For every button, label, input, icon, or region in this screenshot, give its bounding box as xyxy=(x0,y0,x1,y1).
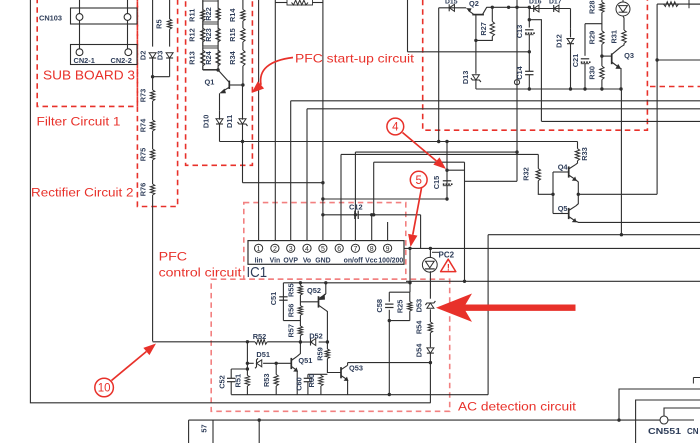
wire C21 column xyxy=(584,24,586,56)
label SUB BOARD 3 xyxy=(43,68,135,83)
svg-text:D15: D15 xyxy=(445,0,458,6)
wire Q5 base xyxy=(553,213,569,215)
wire R30 bottom xyxy=(601,80,603,89)
svg-text:PFC start-up circuit: PFC start-up circuit xyxy=(295,53,415,66)
wire CN551 line right xyxy=(668,419,694,421)
wire big outline left/bottom xyxy=(30,0,430,403)
svg-text:R23: R23 xyxy=(204,28,213,42)
svg-text:2: 2 xyxy=(273,246,277,253)
capacitor C51 xyxy=(269,292,288,306)
capacitor C60 xyxy=(304,378,312,381)
label PFC xyxy=(159,250,188,264)
resistor R23 xyxy=(204,28,221,42)
svg-text:Q2: Q2 xyxy=(469,0,479,8)
junction R30/row xyxy=(600,87,603,90)
wire chains join xyxy=(203,69,218,71)
wire R52 to R57col xyxy=(267,341,300,343)
transistor Q53 xyxy=(341,364,363,382)
transistor Q5 xyxy=(558,204,577,222)
svg-text:Iin: Iin xyxy=(255,257,263,264)
wire Q5 collector up xyxy=(576,194,579,206)
wire y60 right xyxy=(657,59,700,61)
wire R13 bottom xyxy=(202,66,204,70)
svg-text:PFC: PFC xyxy=(159,250,188,264)
svg-text:C51: C51 xyxy=(269,292,278,306)
diode D15 xyxy=(449,4,454,11)
svg-text:D12: D12 xyxy=(555,34,564,48)
wire top resistor left xyxy=(275,2,287,4)
wire top rail y7.8 xyxy=(439,7,467,9)
svg-text:D17: D17 xyxy=(549,0,562,6)
red arrow from circled 10 xyxy=(112,344,157,381)
wire C58R25 top rail xyxy=(389,291,410,293)
svg-text:3: 3 xyxy=(289,246,293,253)
junction rail x508 xyxy=(507,6,510,9)
svg-text:R30: R30 xyxy=(588,66,597,80)
svg-text:OVP: OVP xyxy=(283,257,298,264)
wire bus L5 xyxy=(355,151,517,153)
label D52 xyxy=(309,331,323,340)
svg-text:R32: R32 xyxy=(521,167,530,181)
wire CN103-1 to CN2-1 xyxy=(79,20,81,48)
label D16 D17 fragments xyxy=(529,0,562,6)
label C60 xyxy=(295,377,304,391)
svg-text:PC2: PC2 xyxy=(439,251,455,260)
big red arrow xyxy=(436,294,576,322)
label AC detection circuit xyxy=(458,400,577,414)
junction x438/L4 xyxy=(437,140,440,143)
red dashed box PFC start-up left part xyxy=(186,0,253,165)
junction C13 jog xyxy=(528,18,531,21)
wire chain R14 top xyxy=(242,0,244,10)
svg-text:Q52: Q52 xyxy=(307,286,321,295)
red dashed box SUB BOARD 3 xyxy=(37,0,137,106)
wire Q52 emitter up xyxy=(325,283,327,294)
CN103 pin1 circle xyxy=(76,14,83,21)
wire CN551 upper xyxy=(619,389,700,420)
wire bus L2 xyxy=(307,108,700,110)
capacitor C52 xyxy=(227,378,235,381)
svg-text:Q3: Q3 xyxy=(624,51,634,60)
resistor R22 xyxy=(204,7,221,21)
wire IC pin9 up xyxy=(387,222,389,241)
wire x410 down xyxy=(409,248,411,292)
svg-text:100/200: 100/200 xyxy=(378,257,403,264)
wire R32 bottom to rail xyxy=(538,181,553,195)
svg-text:CN2-1: CN2-1 xyxy=(74,56,95,65)
diode D3 xyxy=(156,51,174,60)
wire chain R22 top xyxy=(217,0,219,8)
wire C60R60 rail xyxy=(308,373,328,375)
junction C13 top rail xyxy=(528,6,531,9)
label D15 fragment xyxy=(445,0,458,6)
svg-text:D2: D2 xyxy=(139,51,148,60)
svg-text:R31: R31 xyxy=(610,30,619,44)
svg-text:7: 7 xyxy=(353,246,357,253)
svg-text:R55: R55 xyxy=(286,283,295,297)
wire x621 down xyxy=(620,89,622,235)
junction C58 bottom rail xyxy=(388,319,391,322)
svg-text:control circuit: control circuit xyxy=(159,266,243,280)
wire y234 rail xyxy=(488,234,700,236)
svg-text:R56: R56 xyxy=(286,304,295,318)
resistor R73 xyxy=(139,89,155,103)
wire interior bottom xyxy=(231,394,488,396)
wire R33 top xyxy=(577,142,579,149)
wire R60 col xyxy=(320,374,322,375)
svg-text:4: 4 xyxy=(392,122,399,134)
wire D52 left xyxy=(300,341,312,343)
svg-text:R24: R24 xyxy=(204,50,213,64)
wire top rail y7.8 part2 xyxy=(487,6,530,8)
junction chains xyxy=(216,68,219,71)
wire C12 rail xyxy=(323,214,421,216)
wire IC pin3 up xyxy=(290,101,292,241)
svg-text:4: 4 xyxy=(305,246,309,253)
wire y194 to x657 xyxy=(578,193,657,195)
svg-text:C52: C52 xyxy=(217,375,226,389)
wire corner to AC box xyxy=(153,341,248,343)
wire bus L6 xyxy=(341,153,538,155)
wire junction to R73 xyxy=(152,77,154,90)
wire C15 to x464 xyxy=(447,169,465,171)
wire CN103 pin2 up xyxy=(127,0,129,14)
resistor R32 xyxy=(521,167,540,181)
connector fragment right edge xyxy=(693,378,700,384)
svg-text:10: 10 xyxy=(98,383,111,395)
svg-text:Vcc: Vcc xyxy=(365,257,377,264)
wire R29 to base node xyxy=(601,44,603,66)
svg-text:C12: C12 xyxy=(349,203,363,212)
svg-text:R33: R33 xyxy=(580,147,589,161)
wire C52 rail xyxy=(231,368,247,370)
wire R25 top xyxy=(409,292,411,302)
wire D11 top xyxy=(242,85,244,120)
svg-text:R22: R22 xyxy=(204,7,213,21)
wire R22-R23 xyxy=(217,20,219,28)
wire D54 to dot xyxy=(429,353,431,363)
wire LED to R31 xyxy=(623,16,624,30)
junction C12/pin8 xyxy=(370,213,373,216)
svg-text:Q1: Q1 xyxy=(205,78,215,87)
diode D51 xyxy=(255,358,262,368)
svg-text:R59: R59 xyxy=(316,347,325,361)
wire R53 bottom xyxy=(275,386,277,395)
resistor R14 xyxy=(228,8,245,22)
label CN2-2 xyxy=(111,56,132,65)
LED lamp top right xyxy=(616,0,630,16)
svg-text:C13: C13 xyxy=(515,25,524,39)
transistor Q1 xyxy=(205,70,243,93)
resistor R52 xyxy=(253,332,268,344)
junction pin5/182 xyxy=(321,181,324,184)
red dashed box AC detection circuit xyxy=(211,279,450,411)
svg-text:D54: D54 xyxy=(415,343,424,357)
wire R73-R74 xyxy=(152,101,154,120)
junction x657/y60 xyxy=(655,58,658,61)
wire D11 to pin5 xyxy=(243,182,323,184)
wire bottom outline xyxy=(189,419,660,421)
wire bottom left leg xyxy=(188,420,190,443)
svg-text:CN: CN xyxy=(687,427,699,436)
svg-text:C58: C58 xyxy=(375,299,384,313)
wire PC2 to D53 xyxy=(429,271,431,299)
svg-text:SUB BOARD 3: SUB BOARD 3 xyxy=(43,68,135,83)
svg-text:R75: R75 xyxy=(139,148,148,162)
junction Q3 base node xyxy=(600,54,603,57)
capacitor C12 xyxy=(349,203,363,220)
junction y248/410 xyxy=(408,247,411,250)
svg-text:R15: R15 xyxy=(228,28,237,42)
wire CN551 pin wire xyxy=(664,408,700,416)
wire top resistor right xyxy=(313,2,323,4)
wire y279 rail xyxy=(406,280,700,282)
label CN2-1 xyxy=(74,56,95,65)
junction rail/x410 xyxy=(408,281,411,284)
wire R29 top xyxy=(601,24,603,31)
wire IC pin8 up xyxy=(371,215,373,241)
svg-text:C60: C60 xyxy=(295,377,304,391)
diode D53 xyxy=(415,299,436,313)
svg-text:C15: C15 xyxy=(432,176,441,190)
red dashed box PFC control circuit xyxy=(244,203,406,280)
svg-text:1: 1 xyxy=(257,246,261,253)
junction D51/R53 xyxy=(275,362,278,365)
wire C51 col xyxy=(282,283,284,321)
wire x517 vertical xyxy=(516,0,518,181)
diode D13 xyxy=(461,71,481,85)
wire D13 tail xyxy=(475,67,477,74)
wire Q53 collector up xyxy=(347,363,349,366)
svg-text:AC detection circuit: AC detection circuit xyxy=(458,400,577,414)
svg-text:R74: R74 xyxy=(139,118,148,132)
junction R27 rail xyxy=(491,6,494,9)
wire IC pin6 up xyxy=(340,154,342,240)
resistor R5 xyxy=(155,19,172,29)
resistor R15 xyxy=(228,28,245,42)
wire x464 down xyxy=(464,162,466,281)
wire R28 to jog xyxy=(585,13,602,24)
wire D3 down xyxy=(169,58,171,77)
resistor R13 xyxy=(188,50,206,66)
box around R24 xyxy=(203,48,218,70)
wire pin5 to C15 node xyxy=(323,198,447,200)
svg-text:C14: C14 xyxy=(515,65,524,79)
junction R55 top xyxy=(299,281,302,284)
label 57 xyxy=(200,424,209,432)
svg-text:D16: D16 xyxy=(529,0,542,6)
wire bottom leg2 xyxy=(212,420,214,443)
wire C14 top xyxy=(528,52,530,72)
svg-text:Rectifier Circuit 2: Rectifier Circuit 2 xyxy=(31,186,134,200)
junction C13/W xyxy=(528,50,531,53)
svg-text:D53: D53 xyxy=(415,299,424,313)
svg-text:!: ! xyxy=(447,263,450,273)
wire C58 col top xyxy=(388,292,390,302)
resistor R33 xyxy=(575,147,589,161)
wire Q51 collector up xyxy=(297,342,300,356)
label CN103 xyxy=(39,14,62,23)
svg-text:R29: R29 xyxy=(588,31,597,45)
wire R51 bottom xyxy=(246,386,248,395)
junction pin5/199 xyxy=(321,197,324,200)
resistor R25 xyxy=(395,300,412,314)
svg-text:R60: R60 xyxy=(307,374,316,388)
wire C13 column top xyxy=(528,7,530,27)
wire C58 col bottom xyxy=(388,310,390,395)
wire y181 to x517 xyxy=(465,180,518,182)
wire x259 stub xyxy=(258,420,260,443)
resistor R12 xyxy=(188,28,206,42)
connector CN103 box xyxy=(71,8,138,24)
wire R59 to Q53 base xyxy=(327,359,341,373)
wire row y89 xyxy=(476,88,622,90)
red arrow from circled 5 xyxy=(408,188,421,247)
diode fragment top right corner xyxy=(689,0,700,8)
svg-text:C21: C21 xyxy=(571,54,580,68)
svg-text:D3: D3 xyxy=(156,51,165,60)
junction y248/PC2 xyxy=(429,247,432,250)
transistor Q2 xyxy=(466,0,487,40)
diode D17 xyxy=(554,5,559,12)
wire R32 top xyxy=(537,154,539,168)
wire R24 bottom xyxy=(217,66,219,70)
svg-text:5: 5 xyxy=(415,175,421,187)
svg-text:Q53: Q53 xyxy=(349,364,363,373)
junction D52/x327 xyxy=(326,340,329,343)
junction Q1 base xyxy=(241,83,244,86)
junction base rail xyxy=(551,193,554,196)
label IC1 xyxy=(247,265,268,281)
optocoupler PC2 LED xyxy=(422,252,439,272)
wire base rail xyxy=(552,172,554,214)
wire IC pin4 up xyxy=(306,109,308,241)
CN551 pin circle xyxy=(660,416,668,424)
resistor R29 xyxy=(588,31,605,45)
wire Q51 emitter down xyxy=(296,371,298,395)
CN2-1 pin circle xyxy=(76,49,83,56)
junction D54 bottom xyxy=(429,361,432,364)
svg-text:Filter Circuit 1: Filter Circuit 1 xyxy=(37,114,121,128)
svg-text:R52: R52 xyxy=(253,332,267,341)
svg-text:5: 5 xyxy=(321,246,325,253)
wire bus L3 xyxy=(542,120,700,122)
junction pin7/C12 rail xyxy=(354,213,357,216)
red dashed box rectifier/filter column xyxy=(137,0,177,207)
wire D2 column top xyxy=(152,0,154,47)
svg-text:R11: R11 xyxy=(188,9,197,22)
resistor R27 xyxy=(479,21,495,36)
wire x373 down xyxy=(373,162,375,215)
wire x488 vertical xyxy=(487,235,489,395)
resistor R60 xyxy=(307,374,323,388)
resistor R59 xyxy=(325,349,329,359)
svg-text:D13: D13 xyxy=(461,71,470,85)
wire rail D16 segment xyxy=(529,8,570,10)
wire R14-R15 xyxy=(242,21,244,28)
red circled 5 xyxy=(410,171,427,188)
wire Q4 base xyxy=(553,171,569,173)
wire CN103-2 to CN2-2 xyxy=(127,20,129,48)
transistor Q4 xyxy=(558,163,577,181)
svg-text:R57: R57 xyxy=(286,324,295,338)
svg-text:CN551: CN551 xyxy=(648,427,682,436)
wire C51 bottom rail xyxy=(283,320,300,322)
red dashed corner top-right box xyxy=(650,86,700,88)
junction x373/C12 rail xyxy=(372,213,375,216)
wire R11-R12 xyxy=(202,21,204,28)
wire IC pin7 up xyxy=(354,152,356,241)
wire D3 join D2 xyxy=(153,76,170,78)
junction D12/row xyxy=(569,87,572,90)
diode D54 xyxy=(415,343,434,357)
wire C52 bottom xyxy=(230,382,232,395)
red circled 10 xyxy=(95,378,114,397)
wire Q4 emitter down xyxy=(576,180,579,195)
junction CN551 xyxy=(617,418,620,421)
wire D12 column xyxy=(570,9,572,29)
wire R55-R56 xyxy=(299,295,301,306)
wire Q2 collector down xyxy=(475,40,477,66)
resistor R54 xyxy=(415,320,433,334)
resistor R34 xyxy=(228,50,245,66)
wire C12 rail corner down xyxy=(420,215,422,249)
junction C52 rail xyxy=(246,367,249,370)
svg-text:CN103: CN103 xyxy=(39,14,62,23)
resistor R57 xyxy=(286,324,302,338)
svg-text:9: 9 xyxy=(386,246,390,253)
svg-text:R25: R25 xyxy=(395,300,404,314)
junction R52 left xyxy=(246,340,249,343)
svg-text:GND: GND xyxy=(315,257,330,264)
wire D13 to row xyxy=(475,80,477,89)
resistor R51 xyxy=(233,374,249,388)
wire y362 Q53 to D54 xyxy=(348,362,431,364)
capacitor C58 xyxy=(375,299,394,313)
wire R5 to D3 xyxy=(169,29,171,46)
wire C21 bottom xyxy=(584,64,586,89)
svg-text:Q4: Q4 xyxy=(558,163,569,172)
wire IC pin1 up xyxy=(258,0,260,241)
box around R23 xyxy=(203,24,218,46)
wire D12 tail xyxy=(570,29,572,38)
svg-text:R28: R28 xyxy=(588,0,597,14)
svg-text:D10: D10 xyxy=(202,115,211,129)
svg-text:D51: D51 xyxy=(256,350,270,359)
wire R76 down to corner xyxy=(152,195,154,341)
wire bus L1 xyxy=(291,100,700,102)
wire y162 pocket xyxy=(374,161,465,163)
label C52 xyxy=(217,375,226,389)
resistor R75 xyxy=(139,148,155,162)
wire D2 to junction xyxy=(152,58,154,77)
wire C52 col xyxy=(230,369,232,378)
svg-text:Vo: Vo xyxy=(303,257,311,264)
svg-text:IC1: IC1 xyxy=(247,265,268,281)
resistor R56 xyxy=(286,304,302,318)
IC1 box xyxy=(248,241,404,265)
resistor R76 xyxy=(139,183,155,197)
svg-text:Q51: Q51 xyxy=(298,356,312,365)
wire W top xyxy=(407,0,409,52)
resistor R30 xyxy=(588,66,605,80)
junction bottom/C58col xyxy=(388,393,391,396)
junction C12 rail pin5 xyxy=(321,213,324,216)
wire R23-R24 xyxy=(217,42,219,50)
wire x438 vertical xyxy=(438,8,440,142)
svg-text:6: 6 xyxy=(337,246,341,253)
svg-text:8: 8 xyxy=(370,246,374,253)
